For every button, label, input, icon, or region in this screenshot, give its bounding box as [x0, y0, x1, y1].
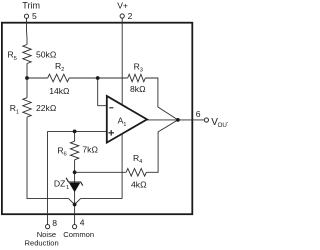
- svg-text:DZ: DZ: [54, 179, 65, 189]
- svg-text:1: 1: [66, 185, 69, 191]
- svg-text:6: 6: [196, 109, 201, 119]
- svg-text:V+: V+: [117, 0, 128, 10]
- svg-text:2: 2: [128, 11, 133, 21]
- svg-text:5: 5: [14, 56, 17, 62]
- svg-text:1: 1: [123, 122, 126, 128]
- svg-text:Reduction: Reduction: [25, 239, 59, 248]
- svg-text:3: 3: [140, 68, 143, 74]
- svg-text:14kΩ: 14kΩ: [49, 86, 70, 96]
- svg-text:Trim: Trim: [22, 1, 40, 11]
- svg-text:1: 1: [16, 109, 19, 115]
- svg-text:4: 4: [80, 217, 85, 227]
- svg-text:22kΩ: 22kΩ: [36, 103, 57, 113]
- svg-text:6: 6: [64, 152, 67, 158]
- svg-text:8: 8: [52, 218, 57, 228]
- svg-text:2: 2: [61, 67, 64, 73]
- svg-text:8kΩ: 8kΩ: [130, 84, 146, 94]
- svg-text:OUT: OUT: [218, 122, 228, 129]
- svg-text:4: 4: [139, 159, 143, 165]
- svg-text:5: 5: [32, 11, 37, 21]
- svg-text:7kΩ: 7kΩ: [82, 145, 98, 155]
- svg-text:Common: Common: [63, 230, 94, 239]
- svg-text:50kΩ: 50kΩ: [36, 49, 57, 59]
- svg-text:4kΩ: 4kΩ: [131, 180, 147, 190]
